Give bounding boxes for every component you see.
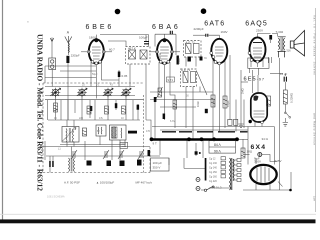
svg-text:▲ 100/100µF: ▲ 100/100µF (96, 181, 114, 185)
svg-text:245V: 245V (275, 159, 282, 163)
svg-text:180V: 180V (89, 36, 96, 40)
svg-text:T6 9 L3: T6 9 L3 (212, 186, 222, 190)
svg-text:Cg·140: Cg·140 (209, 167, 218, 170)
svg-text:1061 SCHEMA: 1061 SCHEMA (47, 195, 65, 199)
svg-text:2MΩ: 2MΩ (241, 88, 245, 94)
svg-text:6AT6: 6AT6 (204, 21, 225, 28)
svg-text:Lon: Lon (313, 196, 317, 201)
svg-text:90 Λ: 90 Λ (214, 149, 222, 153)
svg-text:350V: 350V (254, 160, 261, 164)
svg-text:18Ω: 18Ω (247, 150, 253, 154)
svg-text:UNDA RADIO - Modd. Tel. Códe: UNDA RADIO - Modd. Tel. Códe R63/11 - R6… (36, 34, 45, 191)
svg-text:9 T: 9 T (153, 142, 157, 146)
svg-text:230V: 230V (256, 29, 263, 33)
svg-text:T-302: T-302 (276, 30, 284, 34)
svg-text:100µF: 100µF (139, 36, 148, 40)
svg-text:Cg·12: Cg·12 (209, 158, 216, 161)
svg-text:220: 220 (79, 117, 84, 120)
svg-text:Cg·150: Cg·150 (209, 171, 218, 174)
svg-text:MF 467 kc/s: MF 467 kc/s (136, 181, 153, 185)
svg-text:A.F. 71: A.F. 71 (186, 40, 196, 44)
svg-text:470: 470 (146, 130, 151, 133)
svg-text:84 Λ: 84 Λ (214, 143, 222, 147)
svg-text:0.05: 0.05 (122, 74, 128, 78)
svg-text:160V: 160V (221, 30, 228, 34)
svg-text:10nF: 10nF (196, 101, 200, 107)
svg-text:A.F. 50 PSF: A.F. 50 PSF (64, 181, 80, 185)
svg-text:0.5MΩ: 0.5MΩ (212, 99, 216, 107)
svg-text:50µF: 50µF (92, 73, 98, 76)
svg-text:Cg·160: Cg·160 (209, 176, 218, 179)
svg-text:3300: 3300 (177, 58, 181, 64)
svg-text:Cg·130: Cg·130 (209, 162, 218, 165)
svg-text:100Ω: 100Ω (158, 53, 162, 59)
svg-text:A.F. 316: A.F. 316 (281, 49, 291, 53)
svg-text:6BE6: 6BE6 (86, 24, 115, 31)
svg-text:467 K: 467 K (128, 47, 136, 51)
svg-text:6.3V: 6.3V (170, 120, 175, 123)
svg-text:and Radio Service: and Radio Service (313, 113, 317, 145)
svg-text:2200pF: 2200pF (71, 54, 80, 58)
svg-text:0.1µF: 0.1µF (226, 100, 230, 107)
svg-text:350 V: 350 V (153, 166, 161, 170)
svg-text:6BA6: 6BA6 (152, 24, 181, 31)
svg-text:2200pF: 2200pF (194, 27, 204, 31)
svg-text:6AQ5: 6AQ5 (245, 21, 268, 28)
svg-text:0.22MΩ: 0.22MΩ (290, 93, 294, 103)
svg-text:14 µF: 14 µF (280, 72, 287, 76)
svg-text:Cg·220: Cg·220 (209, 180, 218, 183)
svg-text:Val. III - Parte Usata - Schem: Val. III - Parte Usata - Schemi (313, 15, 317, 75)
svg-text:A.F. 71: A.F. 71 (181, 68, 191, 72)
svg-text:34 Ω: 34 Ω (262, 137, 269, 141)
svg-text:60.7: 60.7 (109, 48, 115, 52)
svg-text:6X4: 6X4 (251, 144, 267, 151)
svg-text:100 µF: 100 µF (153, 161, 163, 165)
svg-text:9 T1: 9 T1 (168, 78, 174, 82)
